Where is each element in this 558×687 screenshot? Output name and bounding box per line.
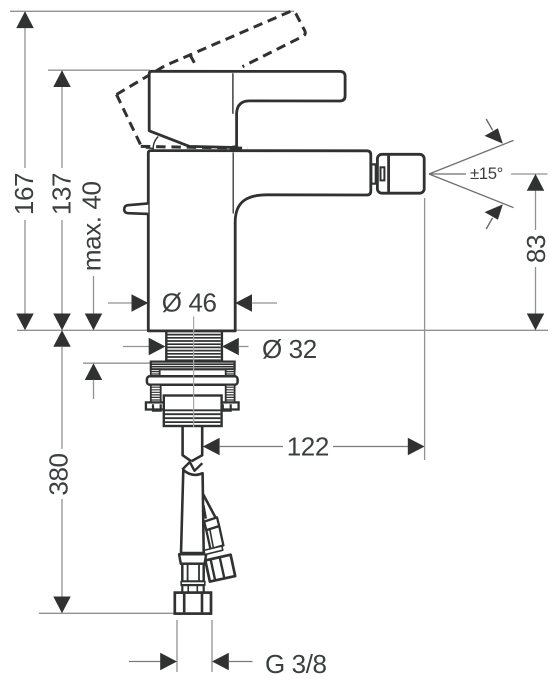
aerator seam (387, 156, 390, 192)
bracket notch left (153, 404, 161, 410)
angled hose thin band (204, 546, 223, 555)
svg-text:380: 380 (43, 453, 73, 495)
dim 122 line right (333, 446, 408, 448)
dim 122 tail left (219, 446, 283, 448)
handle lever (solid) (149, 71, 345, 147)
svg-text:83: 83 (521, 235, 551, 263)
dashed handle outline (open position) (117, 11, 306, 94)
dim 83 line upper (535, 174, 537, 230)
dim G38 tail left (129, 661, 161, 663)
angled hose tube edge (203, 494, 217, 520)
dim 137 line lower (61, 220, 63, 314)
bracket notch right (223, 404, 231, 410)
clamp screw right (226, 385, 235, 403)
dim 122 arrow left (203, 438, 220, 456)
dim 83 arrow bottom (527, 314, 545, 331)
gasket slab (151, 362, 235, 370)
aerator socket detail (381, 167, 385, 180)
hose ferrule (179, 554, 206, 563)
svg-text:G 3/8: G 3/8 (265, 649, 327, 679)
dim 167 line upper (24, 11, 26, 168)
dim 83 arrow top (527, 174, 545, 191)
dashed handle bottom edge (141, 146, 248, 148)
dim 83 line lower (535, 267, 537, 314)
ray upper (429, 140, 514, 174)
dim 167 arrow top (16, 11, 34, 28)
dim G38 arrow left (160, 653, 177, 671)
dim O32 arrow right (222, 338, 239, 356)
dim max40 tail (93, 380, 95, 399)
lower shank block (164, 396, 222, 427)
angled hose end nut (205, 555, 235, 582)
hose hex nut (182, 564, 203, 582)
arc arrow lower head (485, 204, 503, 219)
ref line spout outlet (511, 173, 548, 175)
threaded shank (166, 331, 222, 363)
dim 137 arrow bottom (53, 314, 71, 331)
arc arrow upper head (485, 128, 503, 143)
flexible hose (straight) (181, 470, 204, 553)
dim G38 arrow right (212, 653, 229, 671)
dim max40 line (93, 276, 95, 314)
max40 lower reference line (83, 362, 152, 364)
dim O46 tail right (252, 302, 277, 304)
svg-text:max. 40: max. 40 (77, 181, 107, 271)
dim 167 arrow bottom (16, 314, 34, 331)
handle skirt arc detail (153, 137, 158, 152)
ext line G38 left (176, 620, 178, 672)
pipe break squiggle (182, 462, 202, 471)
dim 380 line upper (61, 347, 63, 449)
dim O46 tail left (108, 302, 132, 304)
shank thread lines (168, 335, 221, 361)
end nut facet lines (184, 594, 202, 613)
screw head right (226, 369, 235, 376)
dim 137 line upper (61, 70, 63, 168)
dim O32 tail right (239, 346, 249, 348)
angled hose tube left edge (204, 506, 206, 519)
dim 380 line lower (61, 499, 63, 597)
dim O46 arrow left (132, 294, 149, 312)
collar facet lines (188, 586, 197, 592)
handle seam line (232, 73, 234, 114)
extension line below aerator (424, 198, 426, 460)
clamp screw left (151, 385, 161, 403)
dashed handle seam (open position) (190, 55, 196, 67)
center line (193, 317, 195, 428)
svg-text:Ø 32: Ø 32 (262, 334, 317, 364)
lower shank thread lines (165, 410, 220, 422)
angled nut facet lines (211, 557, 225, 580)
angled hose crimp band (204, 517, 219, 530)
arc arrow lower tail (486, 218, 492, 229)
dim 137 arrow top (53, 70, 71, 87)
hex facet lines (188, 565, 199, 581)
angled hose tube section (206, 526, 223, 549)
body spout seam (232, 152, 234, 213)
deck reference line (mounting surface) (17, 329, 548, 331)
aerator body (377, 154, 424, 193)
dim 380 arrow bottom (53, 597, 71, 614)
dim O46 arrow right (235, 294, 252, 312)
svg-text:167: 167 (9, 173, 39, 215)
handle step to body (230, 147, 233, 150)
hose thin band (181, 582, 205, 586)
svg-text:Ø 46: Ø 46 (162, 288, 217, 318)
hose collar (182, 585, 203, 593)
clamp bracket (146, 402, 239, 409)
handle skirt tick (146, 147, 154, 149)
hose end nut G3/8 (175, 593, 211, 614)
mounting washer bar (147, 376, 238, 385)
angled tube inner line (210, 529, 214, 548)
dim O32 arrow left (149, 338, 166, 356)
dim 167 line lower (24, 220, 26, 314)
screw head left (151, 369, 160, 376)
reference line 137 level (48, 69, 150, 71)
ray lower (429, 174, 514, 208)
dashed handle left edge (117, 95, 141, 146)
bottom reference line (380 level) (39, 612, 176, 614)
reference line top (167 level) (10, 10, 294, 12)
svg-text:137: 137 (47, 173, 77, 215)
dim max40 arrow lower (85, 363, 103, 380)
faucet body and spout (148, 151, 370, 331)
ext line G38 right (211, 620, 213, 672)
ray middle (429, 173, 466, 175)
dim max40 arrow upper (85, 314, 103, 331)
svg-text:±15°: ±15° (470, 164, 503, 183)
svg-text:122: 122 (287, 431, 329, 461)
gasket inner lines (152, 364, 234, 367)
supply pipe (183, 426, 203, 461)
dim 122 arrow right (408, 438, 425, 456)
dim G38 tail right (229, 661, 253, 663)
dim O32 tail left (123, 346, 149, 348)
arc arrow upper tail (486, 119, 492, 130)
temperature stop pin (124, 203, 148, 214)
dim 380 arrow top (53, 330, 71, 347)
spout nipple (371, 164, 376, 183)
